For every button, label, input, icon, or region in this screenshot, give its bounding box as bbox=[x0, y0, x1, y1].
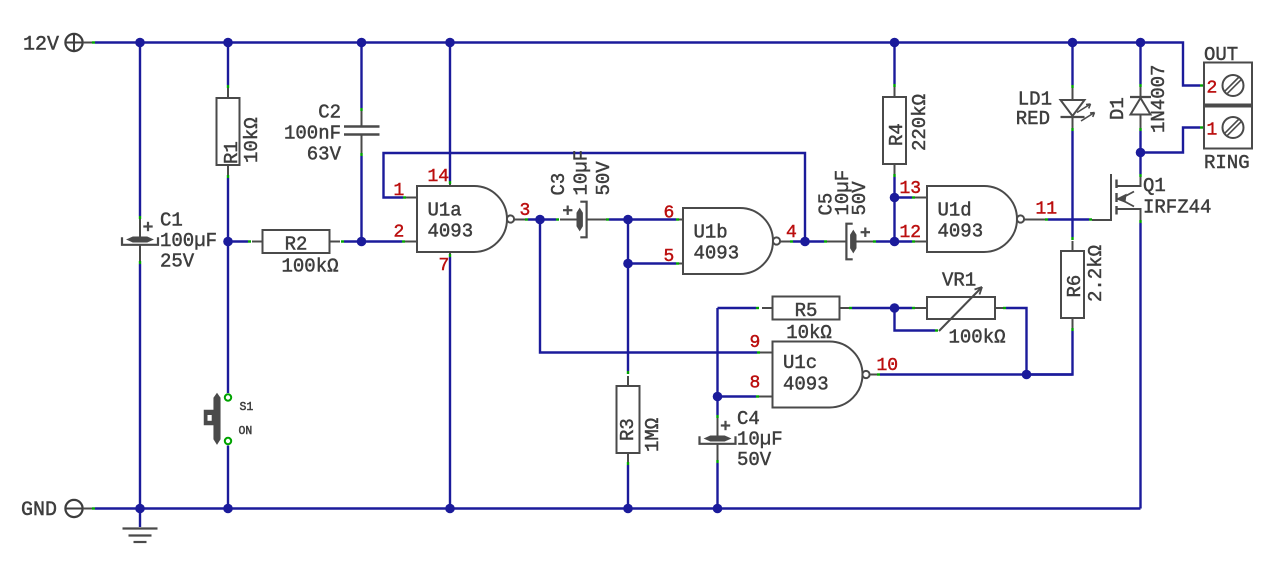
svg-text:C2: C2 bbox=[318, 102, 341, 124]
wire GND rail bbox=[95, 507, 1141, 509]
svg-text:1: 1 bbox=[394, 181, 405, 201]
resistor R1 bbox=[217, 88, 264, 175]
wire VR1 right to node K bbox=[1003, 308, 1027, 375]
wire C1 to GND bbox=[139, 261, 141, 509]
svg-text:R6: R6 bbox=[1064, 275, 1086, 298]
wire node E to R3 bbox=[627, 264, 629, 375]
node K junction pin10-VR1 bbox=[1022, 370, 1032, 380]
wire node I to RING terminal bbox=[1141, 128, 1204, 153]
wire U1a pin 7 to GND bbox=[449, 252, 451, 509]
resistor R3 bbox=[617, 376, 665, 463]
pin number 2 bbox=[394, 223, 405, 243]
svg-text:8: 8 bbox=[750, 374, 761, 394]
svg-text:C3: C3 bbox=[548, 173, 570, 196]
junction 12V-R1 bbox=[223, 38, 233, 48]
wire 12V to LD1 bbox=[1071, 43, 1073, 89]
svg-text:13: 13 bbox=[900, 179, 922, 199]
wire node G to node H bbox=[893, 198, 895, 242]
pin number 11 bbox=[1036, 200, 1058, 220]
wire D1 to node I bbox=[1139, 128, 1141, 153]
svg-text:R4: R4 bbox=[886, 123, 908, 146]
node A junction R1-R2 bbox=[223, 237, 233, 247]
svg-text:R1: R1 bbox=[221, 141, 243, 164]
junction GND-R3 bbox=[623, 504, 633, 514]
svg-text:4093: 4093 bbox=[694, 243, 740, 265]
svg-text:50V: 50V bbox=[849, 181, 871, 216]
svg-text:14: 14 bbox=[428, 167, 450, 187]
ground bbox=[123, 509, 158, 543]
pin number 1 bbox=[394, 181, 405, 201]
svg-text:9: 9 bbox=[750, 333, 761, 353]
svg-text:U1a: U1a bbox=[428, 200, 462, 222]
capacitor C4 bbox=[700, 408, 783, 471]
svg-text:U1d: U1d bbox=[938, 200, 972, 222]
pin number 5 bbox=[664, 247, 675, 267]
op-amp U1a 4093 NAND gate bbox=[417, 186, 514, 252]
svg-text:4: 4 bbox=[786, 223, 797, 243]
op-amp U1d 4093 NAND gate bbox=[927, 186, 1024, 252]
wire node J to VR1 left bbox=[895, 307, 916, 309]
op-amp U1b 4093 NAND gate bbox=[683, 208, 780, 274]
svg-text:4093: 4093 bbox=[428, 221, 474, 243]
potentiometer VR1 100k bbox=[915, 270, 1006, 349]
node E junction pin5-R3 bbox=[623, 259, 633, 269]
wire LD1 to R6 bbox=[1071, 128, 1073, 240]
pin number 4 bbox=[786, 223, 797, 243]
svg-text:3: 3 bbox=[520, 201, 531, 221]
svg-text:R2: R2 bbox=[285, 234, 308, 256]
svg-text:4093: 4093 bbox=[938, 221, 984, 243]
node J junction R5-VR1 bbox=[890, 303, 900, 313]
junction 12V-pin14 bbox=[445, 38, 455, 48]
pin number 13 bbox=[900, 179, 922, 199]
svg-text:6: 6 bbox=[664, 204, 675, 224]
capacitor C3 bbox=[548, 150, 615, 237]
wire node A to S1 bbox=[227, 242, 229, 394]
svg-text:1: 1 bbox=[1207, 121, 1218, 141]
svg-text:10: 10 bbox=[877, 356, 899, 376]
junction 12V-R4 bbox=[890, 38, 900, 48]
wire node B to U1a pin 2 bbox=[362, 240, 418, 242]
junction 12V-LD1 bbox=[1068, 38, 1078, 48]
wire S1 to GND bbox=[227, 446, 229, 509]
svg-text:2: 2 bbox=[1207, 79, 1218, 99]
wire 12V to C1 bbox=[139, 43, 141, 220]
node B junction C2-R2-pin2 bbox=[357, 237, 367, 247]
svg-text:VR1: VR1 bbox=[942, 270, 976, 292]
resistor R5 bbox=[718, 297, 895, 345]
wire node L to C4 bbox=[716, 397, 718, 419]
node F junction U1b out bbox=[800, 237, 810, 247]
connector terminal block OUT/RING bbox=[1204, 44, 1252, 174]
svg-text:63V: 63V bbox=[307, 144, 342, 166]
svg-text:220kΩ: 220kΩ bbox=[909, 94, 931, 151]
wire U1b out to U1a pin 1 bbox=[384, 153, 806, 242]
wire node L to U1c pin 8 bbox=[718, 395, 773, 397]
svg-text:10µF: 10µF bbox=[737, 429, 783, 451]
node G junction C5-pin12 bbox=[890, 237, 900, 247]
wire 12V to R1 bbox=[227, 43, 229, 89]
svg-text:11: 11 bbox=[1036, 200, 1058, 220]
svg-text:7: 7 bbox=[439, 256, 450, 276]
wire R1 to node A bbox=[227, 175, 229, 242]
svg-text:50V: 50V bbox=[737, 449, 772, 471]
wire R6 to pin 10 net bbox=[1027, 328, 1073, 375]
resistor R2 bbox=[228, 230, 362, 278]
wire U1c pin 10 net bbox=[870, 374, 1073, 376]
wire Q1 drain to node I bbox=[1139, 153, 1141, 178]
junction GND-pin7 bbox=[445, 504, 455, 514]
wire pin8 net up to R5 bbox=[716, 308, 718, 397]
junction GND-C4 bbox=[713, 504, 723, 514]
svg-text:GND: GND bbox=[21, 499, 57, 522]
svg-text:10µF: 10µF bbox=[571, 150, 593, 196]
junction 12V-C1 bbox=[135, 38, 145, 48]
capacitor C2 bbox=[284, 102, 380, 166]
pin number 3 bbox=[520, 201, 531, 221]
svg-text:1N4007: 1N4007 bbox=[1148, 65, 1170, 133]
svg-text:50V: 50V bbox=[593, 161, 615, 196]
wire node J to VR1 wiper bbox=[895, 308, 939, 331]
wire U1a pin 3 to C3 bbox=[514, 219, 559, 221]
wire 12V to C2 bbox=[360, 43, 362, 112]
node C junction U1a out bbox=[535, 215, 545, 225]
svg-text:4093: 4093 bbox=[783, 374, 829, 396]
svg-text:12: 12 bbox=[900, 223, 922, 243]
pin number 14 bbox=[428, 167, 450, 187]
svg-text:ON: ON bbox=[239, 425, 253, 438]
power terminal 12V bbox=[23, 34, 95, 57]
capacitor C5 bbox=[816, 170, 874, 259]
transistor Q1 IRFZ44 bbox=[1092, 174, 1211, 220]
pin number 1 terminal bbox=[1207, 121, 1218, 141]
svg-text:12V: 12V bbox=[23, 34, 59, 57]
wire U1b pin 4 to C5 bbox=[780, 241, 827, 243]
resistor R4 bbox=[883, 87, 931, 174]
svg-text:S1: S1 bbox=[240, 401, 254, 414]
wire node G to U1d pin 12 bbox=[895, 240, 928, 242]
wire 12V to R4 bbox=[893, 43, 895, 88]
wire C2 to node B bbox=[360, 153, 362, 242]
svg-text:Q1: Q1 bbox=[1143, 175, 1166, 197]
svg-text:RED: RED bbox=[1016, 108, 1050, 130]
wire C5 to node G bbox=[873, 240, 895, 242]
wire node H to U1d pin 13 bbox=[895, 196, 928, 198]
wire node D to node E bbox=[627, 220, 629, 264]
svg-text:100kΩ: 100kΩ bbox=[281, 256, 338, 278]
svg-text:C1: C1 bbox=[160, 210, 183, 232]
pin number 2 terminal bbox=[1207, 79, 1218, 99]
svg-text:10kΩ: 10kΩ bbox=[241, 117, 263, 163]
pin number 6 bbox=[664, 204, 675, 224]
svg-text:RING: RING bbox=[1204, 152, 1250, 174]
node L junction pin8-C4 bbox=[713, 392, 723, 402]
wire 12V rail bbox=[95, 43, 1204, 86]
switch S1 ON bbox=[205, 394, 254, 444]
pin number 7 bbox=[439, 256, 450, 276]
junction 12V-D1 bbox=[1136, 38, 1146, 48]
wire R4 to node H bbox=[893, 174, 895, 198]
svg-text:100kΩ: 100kΩ bbox=[948, 327, 1005, 349]
power terminal GND bbox=[21, 499, 95, 522]
node D junction C3-pin6 bbox=[623, 215, 633, 225]
svg-text:5: 5 bbox=[664, 247, 675, 267]
junction GND-C1 bbox=[135, 504, 145, 514]
svg-text:U1b: U1b bbox=[694, 222, 728, 244]
junction GND-S1 bbox=[223, 504, 233, 514]
wire R3 to GND bbox=[627, 462, 629, 509]
junction 12V-C2 bbox=[357, 38, 367, 48]
wire C3 to node D bbox=[606, 218, 683, 220]
svg-text:R3: R3 bbox=[617, 418, 639, 441]
svg-text:R5: R5 bbox=[795, 300, 818, 322]
pin number 9 bbox=[750, 333, 761, 353]
wire node C to U1c pin 9 bbox=[540, 220, 773, 353]
pin number 10 bbox=[877, 356, 899, 376]
svg-text:IRFZ44: IRFZ44 bbox=[1143, 197, 1211, 219]
wire 12V to D1 bbox=[1139, 43, 1141, 88]
node H junction R4-pin13 bbox=[890, 193, 900, 203]
LED LD1 RED bbox=[1016, 88, 1095, 130]
resistor R6 bbox=[1061, 241, 1107, 328]
wire node E to U1b pin 5 bbox=[628, 262, 683, 264]
pin number 12 bbox=[900, 223, 922, 243]
svg-text:OUT: OUT bbox=[1204, 44, 1238, 66]
node I junction D1-RING-drain bbox=[1136, 148, 1146, 158]
svg-text:C4: C4 bbox=[737, 408, 760, 430]
svg-text:100µF: 100µF bbox=[160, 230, 217, 252]
wire C4 to GND bbox=[716, 460, 718, 509]
wire 12V to U1a pin 14 bbox=[449, 43, 451, 187]
svg-text:D1: D1 bbox=[1107, 97, 1129, 120]
wire Q1 source to GND bbox=[1139, 220, 1141, 509]
svg-text:U1c: U1c bbox=[783, 352, 817, 374]
svg-text:2: 2 bbox=[394, 223, 405, 243]
op-amp U1c 4093 NAND gate bbox=[773, 342, 870, 408]
svg-text:25V: 25V bbox=[160, 251, 195, 273]
pin number 8 bbox=[750, 374, 761, 394]
diode D1 1N4007 bbox=[1107, 65, 1170, 133]
wire U1d pin 11 to Q1 gate bbox=[1024, 219, 1092, 221]
svg-text:1MΩ: 1MΩ bbox=[642, 418, 664, 452]
svg-text:2.2kΩ: 2.2kΩ bbox=[1085, 245, 1107, 302]
svg-text:100nF: 100nF bbox=[284, 123, 341, 145]
capacitor C1 bbox=[122, 210, 217, 273]
